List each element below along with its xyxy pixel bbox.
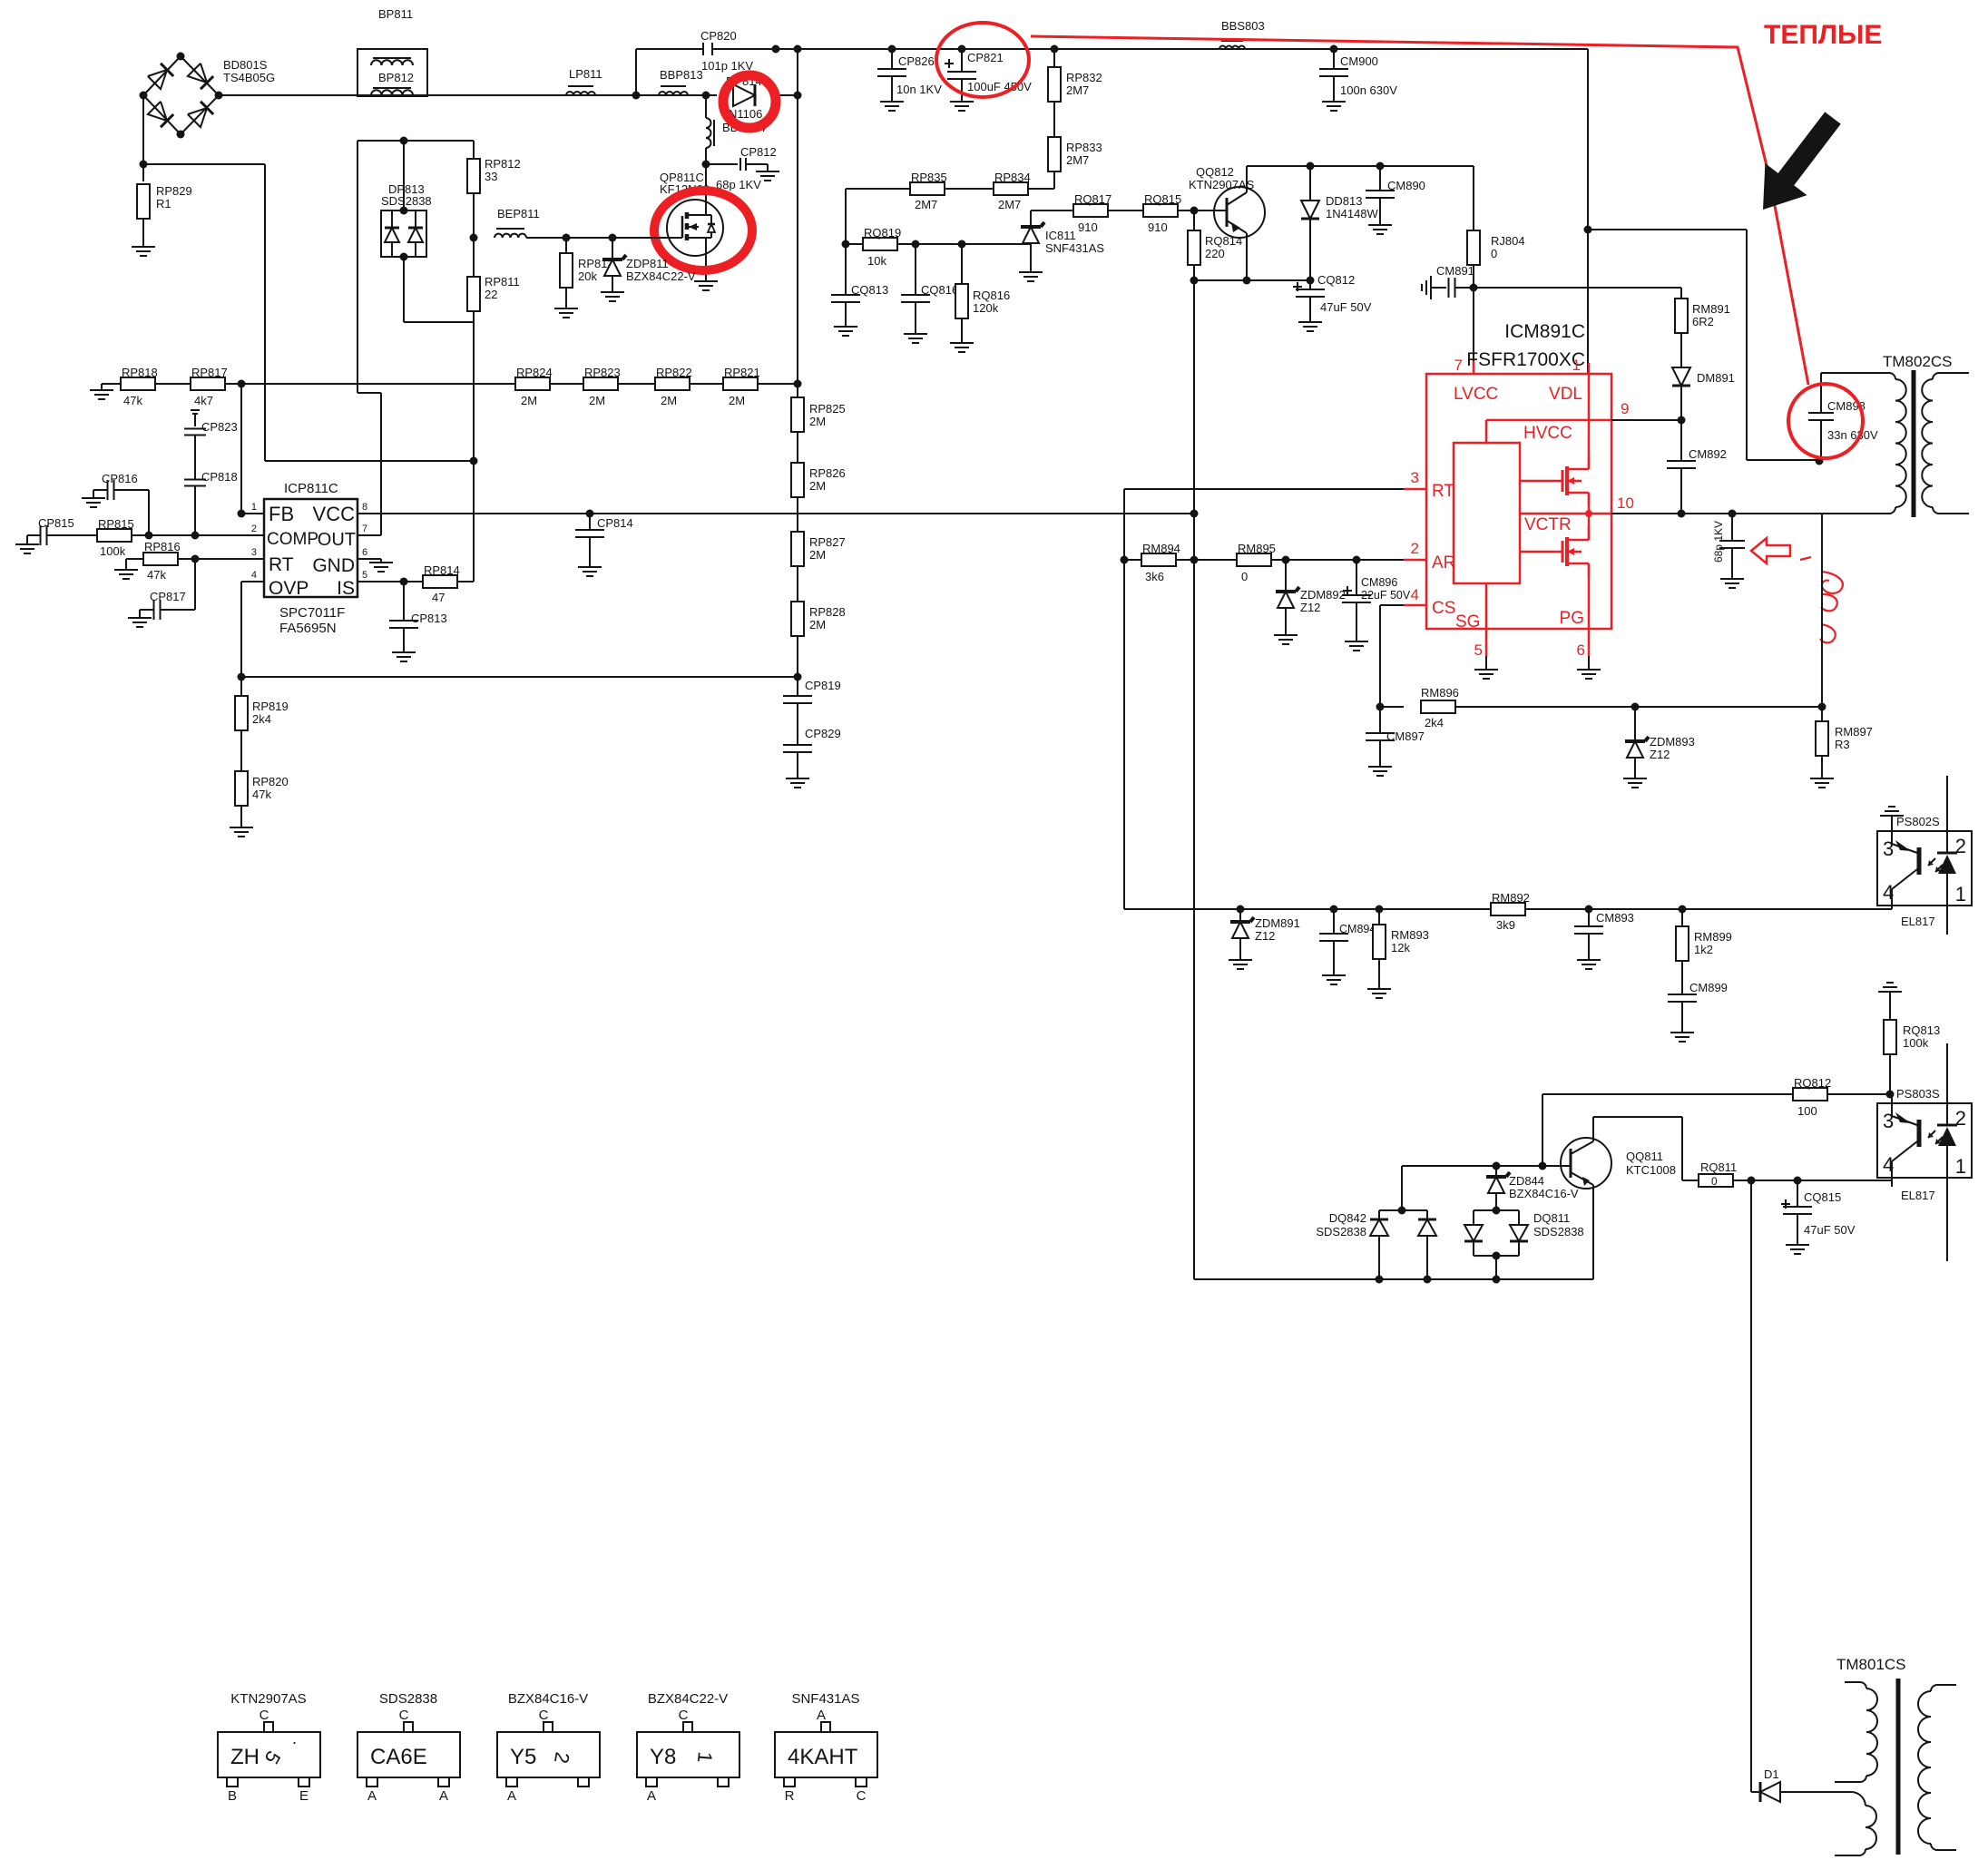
svg-text:RQ817: RQ817 [1074, 192, 1112, 206]
svg-text:47k: 47k [252, 788, 271, 801]
svg-text:2: 2 [1955, 1107, 1966, 1130]
svg-text:220: 220 [1205, 247, 1225, 260]
svg-text:5: 5 [1474, 641, 1483, 659]
svg-text:TM802CS: TM802CS [1883, 353, 1953, 370]
svg-text:RP820: RP820 [252, 775, 289, 788]
svg-text:RQ815: RQ815 [1144, 192, 1181, 206]
svg-text:ZDP811: ZDP811 [626, 257, 669, 270]
svg-text:1: 1 [1572, 357, 1581, 374]
svg-text:TM801CS: TM801CS [1836, 1656, 1906, 1673]
svg-text:SNF431AS: SNF431AS [791, 1691, 859, 1707]
svg-text:CS: CS [1432, 599, 1455, 618]
svg-text:100k: 100k [100, 544, 126, 558]
svg-text:47: 47 [432, 591, 445, 604]
svg-text:Z12: Z12 [1300, 601, 1320, 614]
svg-text:4: 4 [1883, 881, 1894, 904]
svg-text:RP823: RP823 [584, 366, 621, 379]
svg-text:CM900: CM900 [1340, 54, 1378, 68]
svg-text:PS802S: PS802S [1896, 815, 1940, 828]
svg-text:RP827: RP827 [809, 535, 846, 549]
svg-text:47k: 47k [147, 568, 166, 582]
svg-text:CM892: CM892 [1689, 447, 1727, 461]
svg-text:SNF431AS: SNF431AS [1045, 241, 1104, 255]
svg-text:VCC: VCC [313, 503, 356, 525]
svg-text:RT: RT [1432, 482, 1454, 501]
svg-text:0: 0 [1711, 1175, 1718, 1188]
svg-text:CM897: CM897 [1386, 729, 1425, 743]
svg-text:CP815: CP815 [38, 516, 74, 530]
svg-text:C: C [260, 1708, 269, 1723]
svg-text:ТЕПЛЫЕ: ТЕПЛЫЕ [1764, 20, 1882, 50]
svg-text:2M7: 2M7 [915, 198, 937, 211]
svg-text:2: 2 [1411, 540, 1419, 557]
svg-text:CM894: CM894 [1339, 923, 1376, 935]
svg-text:CQ816: CQ816 [921, 283, 958, 297]
svg-text:33: 33 [485, 170, 497, 183]
svg-text:47uF 50V: 47uF 50V [1804, 1223, 1856, 1237]
svg-text:BZX84C16-V: BZX84C16-V [508, 1691, 588, 1707]
svg-text:KTC1008: KTC1008 [1626, 1163, 1676, 1177]
svg-text:FB: FB [269, 503, 294, 525]
svg-text:2k4: 2k4 [1425, 716, 1444, 729]
svg-text:ZDM892: ZDM892 [1300, 588, 1346, 602]
svg-text:2M: 2M [729, 394, 745, 407]
svg-text:100n 630V: 100n 630V [1340, 83, 1397, 97]
svg-text:CP819: CP819 [805, 679, 841, 692]
svg-text:7: 7 [362, 524, 367, 534]
svg-text:SDS2838: SDS2838 [1533, 1225, 1584, 1238]
svg-text:A: A [817, 1708, 826, 1723]
svg-text:RP825: RP825 [809, 402, 846, 416]
svg-text:2M: 2M [809, 479, 826, 493]
svg-text:120k: 120k [973, 301, 999, 315]
svg-text:RP822: RP822 [656, 366, 692, 379]
svg-text:ZH: ZH [230, 1745, 260, 1769]
svg-text:47uF 50V: 47uF 50V [1320, 300, 1372, 314]
svg-text:RM897: RM897 [1835, 725, 1873, 739]
svg-text:COMP: COMP [267, 530, 318, 549]
svg-text:GND: GND [312, 555, 355, 576]
svg-text:10k: 10k [867, 254, 886, 268]
svg-text:PS803S: PS803S [1896, 1087, 1940, 1101]
svg-text:OUT: OUT [318, 530, 356, 550]
svg-text:LVCC: LVCC [1454, 385, 1498, 404]
svg-text:20k: 20k [578, 269, 597, 283]
svg-text:SDS2838: SDS2838 [381, 194, 432, 208]
svg-text:2M: 2M [809, 415, 826, 428]
svg-text:RP814: RP814 [424, 563, 460, 577]
svg-text:4: 4 [251, 570, 257, 581]
svg-text:ICM891C: ICM891C [1504, 321, 1585, 342]
svg-text:3k9: 3k9 [1496, 918, 1515, 932]
svg-text:RP819: RP819 [252, 700, 289, 713]
svg-text:CM899: CM899 [1689, 981, 1728, 994]
svg-text:RM891: RM891 [1692, 302, 1730, 316]
svg-text:4: 4 [1883, 1153, 1894, 1176]
svg-text:CM890: CM890 [1387, 179, 1425, 192]
svg-text:RP834: RP834 [994, 171, 1031, 184]
svg-text:BP812: BP812 [378, 71, 414, 84]
svg-text:CP821: CP821 [967, 51, 1004, 64]
svg-text:RQ816: RQ816 [973, 289, 1010, 302]
svg-text:9: 9 [1621, 400, 1629, 417]
svg-text:RP816: RP816 [144, 540, 181, 553]
svg-text:2M7: 2M7 [998, 198, 1021, 211]
svg-text:RP828: RP828 [809, 605, 846, 619]
svg-text:Y8: Y8 [650, 1745, 676, 1769]
svg-text:0: 0 [1491, 247, 1497, 260]
svg-text:A: A [647, 1788, 656, 1804]
svg-text:10: 10 [1617, 494, 1634, 512]
svg-text:ICP811C: ICP811C [284, 481, 338, 496]
svg-text:CP829: CP829 [805, 727, 841, 740]
svg-text:BZX84C22-V: BZX84C22-V [626, 269, 696, 283]
svg-text:2M7: 2M7 [1066, 153, 1089, 167]
svg-text:ZDM891: ZDM891 [1255, 916, 1300, 930]
svg-text:RQ812: RQ812 [1794, 1076, 1831, 1090]
svg-text:BD801S: BD801S [223, 58, 268, 72]
svg-text:VDL: VDL [1549, 385, 1582, 404]
svg-text:LP811: LP811 [569, 67, 602, 81]
svg-text:E: E [299, 1788, 308, 1804]
svg-text:2M7: 2M7 [1066, 83, 1089, 97]
svg-text:22: 22 [485, 288, 497, 301]
svg-text:RP817: RP817 [191, 366, 228, 379]
svg-text:101p 1KV: 101p 1KV [701, 59, 753, 73]
svg-text:RQ814: RQ814 [1205, 234, 1242, 248]
svg-text:TS4B05G: TS4B05G [223, 71, 275, 84]
svg-text:6: 6 [362, 547, 367, 558]
svg-text:4k7: 4k7 [194, 394, 213, 407]
svg-text:CP826: CP826 [898, 54, 935, 68]
svg-text:D1: D1 [1764, 1767, 1779, 1781]
svg-text:HVCC: HVCC [1523, 424, 1572, 443]
svg-text:RM896: RM896 [1421, 686, 1459, 700]
svg-text:FA5695N: FA5695N [279, 621, 337, 636]
svg-text:22uF 50V: 22uF 50V [1361, 589, 1411, 602]
svg-text:Z12: Z12 [1255, 929, 1275, 943]
svg-text:Y5: Y5 [510, 1745, 536, 1769]
svg-text:A: A [367, 1788, 377, 1804]
svg-text:AR: AR [1432, 553, 1455, 573]
svg-text:2M: 2M [521, 394, 537, 407]
svg-text:PG: PG [1560, 609, 1584, 628]
svg-text:CP817: CP817 [150, 590, 186, 603]
svg-text:SDS2838: SDS2838 [379, 1691, 437, 1707]
svg-text:7: 7 [1454, 357, 1463, 374]
svg-text:FSFR1700XC: FSFR1700XC [1466, 349, 1585, 370]
svg-text:BZX84C16-V: BZX84C16-V [1509, 1187, 1579, 1200]
svg-text:33n 630V: 33n 630V [1827, 428, 1878, 442]
svg-text:CP814: CP814 [597, 516, 633, 530]
svg-text:RM895: RM895 [1238, 542, 1276, 555]
svg-text:12k: 12k [1391, 941, 1410, 954]
svg-text:1k2: 1k2 [1694, 943, 1713, 956]
svg-text:3: 3 [1883, 1110, 1894, 1132]
svg-text:ZDM893: ZDM893 [1650, 735, 1695, 749]
svg-text:OVP: OVP [269, 578, 308, 599]
svg-text:RP824: RP824 [516, 366, 553, 379]
svg-text:3k6: 3k6 [1145, 570, 1164, 583]
svg-text:5: 5 [362, 570, 367, 581]
svg-text:CM891: CM891 [1436, 264, 1474, 278]
svg-text:.: . [292, 1729, 297, 1747]
svg-text:RM899: RM899 [1694, 930, 1732, 944]
svg-text:QQ812: QQ812 [1196, 165, 1234, 179]
svg-text:SG: SG [1455, 612, 1480, 631]
svg-text:CQ815: CQ815 [1804, 1190, 1841, 1204]
svg-text:1N4148W: 1N4148W [1326, 207, 1379, 220]
svg-text:SDS2838: SDS2838 [1316, 1225, 1366, 1238]
svg-text:R1: R1 [156, 197, 171, 210]
svg-text:BZX84C22-V: BZX84C22-V [648, 1691, 728, 1707]
svg-text:4: 4 [1411, 586, 1419, 603]
svg-text:CP812: CP812 [740, 145, 777, 159]
svg-text:VCTR: VCTR [1524, 515, 1572, 534]
svg-text:100k: 100k [1903, 1036, 1929, 1050]
svg-text:CP820: CP820 [700, 29, 737, 43]
svg-text:C: C [679, 1708, 689, 1723]
svg-text:CM893: CM893 [1596, 911, 1634, 925]
svg-text:RM894: RM894 [1142, 542, 1180, 555]
svg-text:BBS803: BBS803 [1221, 19, 1265, 33]
svg-text:RP826: RP826 [809, 466, 846, 480]
svg-text:RP829: RP829 [156, 184, 192, 198]
svg-text:2M: 2M [589, 394, 605, 407]
svg-text:BBP813: BBP813 [660, 68, 703, 82]
svg-text:RQ819: RQ819 [864, 226, 901, 240]
svg-text:CP816: CP816 [102, 472, 138, 485]
svg-text:CA6E: CA6E [370, 1745, 427, 1769]
svg-text:3: 3 [1883, 837, 1894, 860]
svg-text:DM891: DM891 [1697, 371, 1735, 385]
svg-text:CP823: CP823 [201, 420, 238, 434]
svg-text:R: R [785, 1788, 795, 1804]
svg-text:2M: 2M [809, 548, 826, 562]
svg-text:R3: R3 [1835, 738, 1850, 751]
svg-text:RP812: RP812 [485, 157, 521, 171]
svg-text:RQ813: RQ813 [1903, 1023, 1940, 1037]
svg-text:RP818: RP818 [122, 366, 158, 379]
svg-text:4KAHT: 4KAHT [788, 1745, 858, 1769]
svg-text:2k4: 2k4 [252, 712, 271, 726]
svg-text:1: 1 [1955, 1155, 1966, 1178]
svg-text:1: 1 [693, 1751, 717, 1764]
svg-text:RJ804: RJ804 [1491, 234, 1525, 248]
svg-text:C: C [857, 1788, 867, 1804]
svg-text:B: B [228, 1788, 237, 1804]
svg-text:68p 1KV: 68p 1KV [1712, 521, 1725, 563]
svg-text:0: 0 [1241, 570, 1248, 583]
svg-text:Z12: Z12 [1650, 748, 1670, 761]
svg-text:10n 1KV: 10n 1KV [896, 83, 942, 96]
svg-text:C: C [539, 1708, 549, 1723]
svg-text:IS: IS [337, 578, 355, 599]
svg-text:CP813: CP813 [411, 612, 447, 625]
svg-text:RM893: RM893 [1391, 928, 1429, 942]
svg-text:RM892: RM892 [1492, 891, 1530, 905]
svg-text:KTN2907AS: KTN2907AS [1189, 178, 1255, 191]
svg-text:3: 3 [1411, 469, 1419, 486]
svg-text:1: 1 [251, 502, 257, 513]
svg-text:RP821: RP821 [724, 366, 760, 379]
svg-text:CQ813: CQ813 [851, 283, 888, 297]
svg-text:C: C [399, 1708, 409, 1723]
svg-text:2M: 2M [661, 394, 677, 407]
svg-text:RP833: RP833 [1066, 141, 1102, 154]
svg-text:6: 6 [1577, 641, 1585, 659]
svg-text:CM896: CM896 [1361, 576, 1397, 589]
svg-text:A: A [507, 1788, 516, 1804]
svg-text:DD813: DD813 [1326, 194, 1362, 208]
svg-text:CP818: CP818 [201, 470, 238, 484]
svg-text:DQ842: DQ842 [1329, 1211, 1366, 1225]
svg-text:2: 2 [1955, 835, 1966, 857]
svg-text:KTN2907AS: KTN2907AS [230, 1691, 306, 1707]
svg-text:IC811: IC811 [1045, 229, 1076, 242]
svg-text:RP811: RP811 [485, 275, 520, 289]
svg-text:RQ811: RQ811 [1700, 1160, 1737, 1174]
svg-text:1: 1 [1955, 883, 1966, 906]
svg-text:2: 2 [251, 524, 257, 534]
svg-text:8: 8 [362, 502, 367, 513]
svg-text:910: 910 [1078, 220, 1098, 234]
svg-text:RP815: RP815 [98, 517, 134, 531]
svg-text:47k: 47k [123, 394, 142, 407]
svg-text:3: 3 [251, 547, 257, 558]
svg-text:QQ811: QQ811 [1626, 1150, 1663, 1163]
svg-text:RP835: RP835 [911, 171, 947, 184]
svg-text:RP832: RP832 [1066, 71, 1102, 84]
svg-text:CQ812: CQ812 [1317, 273, 1355, 287]
svg-text:BP811: BP811 [378, 7, 413, 21]
svg-text:BEP811: BEP811 [497, 207, 540, 220]
svg-text:A: A [439, 1788, 448, 1804]
svg-text:910: 910 [1148, 220, 1168, 234]
svg-text:RT: RT [269, 554, 294, 575]
svg-text:100: 100 [1797, 1104, 1817, 1118]
svg-text:SPC7011F: SPC7011F [279, 605, 345, 621]
svg-text:2M: 2M [809, 618, 826, 631]
svg-text:EL817: EL817 [1901, 915, 1935, 928]
svg-text:EL817: EL817 [1901, 1189, 1935, 1202]
svg-text:ZD844: ZD844 [1509, 1174, 1544, 1188]
svg-text:6R2: 6R2 [1692, 315, 1714, 328]
svg-text:DQ811: DQ811 [1533, 1211, 1570, 1225]
